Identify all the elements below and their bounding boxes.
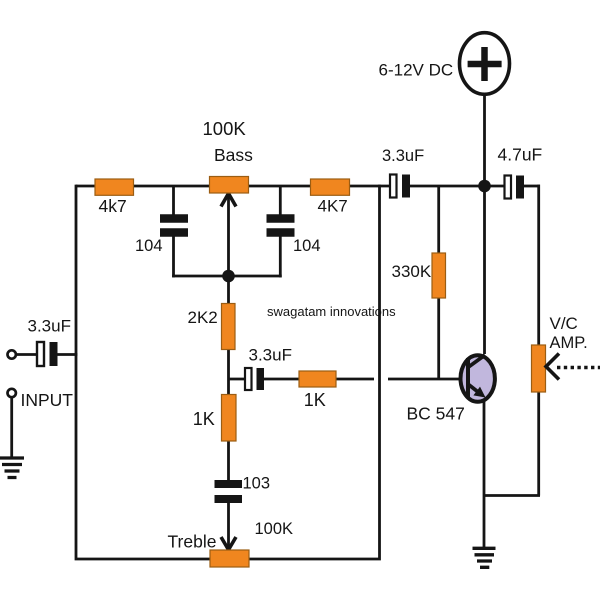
capacitor C7 4.7uF positive plate: [516, 176, 524, 199]
wire 1K to crossing break: [335, 378, 374, 381]
wire top rail right section: [524, 185, 540, 188]
wire base branch column to 3.3uF: [229, 378, 247, 381]
potentiometer treble 100K body: [210, 550, 249, 567]
transistor Q1 emitter stroke: [469, 385, 481, 394]
svg-text:BC 547: BC 547: [407, 404, 465, 424]
resistor R4 2K2: [222, 304, 236, 350]
svg-text:V/C: V/C: [550, 314, 578, 333]
bass wiper arrowhead: [221, 194, 236, 207]
input terminal bottom circle: [8, 389, 16, 397]
wire VC branch vertical: [537, 185, 540, 496]
svg-text:100K: 100K: [203, 118, 247, 139]
wire supply rail vertical: [483, 95, 486, 354]
ground emitter: [473, 548, 496, 567]
transistor Q1 emitter arrowhead: [473, 387, 485, 398]
svg-text:100K: 100K: [255, 520, 294, 538]
potentiometer VC amp body: [532, 345, 546, 392]
VC wiper dotted lead: [557, 366, 600, 369]
svg-text:4K7: 4K7: [318, 197, 348, 216]
wire input coupling left: [16, 353, 37, 356]
wire left 104 cap top lead: [172, 186, 175, 215]
wire 1K to 103 cap: [227, 439, 230, 481]
svg-text:AMP.: AMP.: [550, 334, 588, 352]
capacitor C2 left 104: [160, 219, 188, 233]
battery plus sign: [468, 47, 502, 81]
svg-text:6-12V DC: 6-12V DC: [379, 61, 454, 80]
capacitor C6 top 3.3uF negative plate: [390, 175, 397, 198]
resistor R5 1K vertical: [222, 395, 237, 442]
VC wiper arrowhead: [546, 354, 559, 380]
wire left/bottom/right U loop: [76, 185, 380, 559]
capacitor C7 4.7uF negative plate: [505, 176, 512, 199]
svg-text:104: 104: [135, 237, 163, 255]
wire center column dot to 2K2: [227, 276, 230, 305]
capacitor C1 input 3.3uF positive plate: [50, 342, 58, 366]
transistor Q1 BC547 body: [461, 355, 495, 402]
svg-text:3.3uF: 3.3uF: [382, 147, 424, 165]
resistor R1 4k7: [95, 179, 134, 195]
wire top rail mid section: [409, 185, 505, 188]
svg-text:103: 103: [243, 475, 271, 493]
svg-text:4.7uF: 4.7uF: [498, 145, 543, 165]
svg-text:Bass: Bass: [214, 145, 253, 165]
wire input ground drop: [10, 398, 13, 458]
wire 2K2 to 1K: [227, 348, 230, 396]
capacitor C4 mid 3.3uF negative plate: [245, 368, 252, 390]
battery B1 6-12V DC circle: [460, 33, 510, 95]
node supply junction dot: [478, 180, 491, 193]
capacitor C3 right 104: [267, 219, 295, 233]
wire bass feedback cross bar: [172, 275, 282, 278]
treble wiper arrowhead: [221, 537, 236, 550]
svg-text:3.3uF: 3.3uF: [28, 317, 71, 336]
svg-text:4k7: 4k7: [99, 196, 127, 216]
svg-text:330K: 330K: [392, 262, 432, 281]
ground input: [0, 458, 24, 478]
svg-text:2K2: 2K2: [188, 308, 218, 327]
wire treble wiper shaft: [227, 502, 230, 547]
svg-text:3.3uF: 3.3uF: [249, 346, 292, 365]
wire emitter to VC pot bottom: [484, 494, 540, 497]
resistor R3 330K: [432, 253, 446, 298]
wire input coupling right: [56, 353, 77, 356]
resistor R6 1K horizontal: [299, 371, 336, 387]
transistor Q1 base bar: [466, 358, 470, 397]
wire 3.3uF to 1K horizontal: [264, 378, 300, 381]
capacitor C1 input 3.3uF negative plate: [37, 342, 44, 366]
resistor R2 4K7: [311, 179, 350, 195]
capacitor C6 top 3.3uF positive plate: [402, 175, 410, 198]
wire left 104 cap bottom lead: [172, 236, 175, 277]
svg-text:1K: 1K: [304, 390, 326, 410]
wire top rail left section: [76, 185, 390, 188]
svg-text:swagatam innovations: swagatam innovations: [267, 304, 396, 319]
capacitor C4 mid 3.3uF positive plate: [257, 368, 265, 390]
potentiometer bass 100K body: [210, 177, 249, 194]
wire bass wiper shaft: [227, 196, 230, 276]
node A junction dot below bass: [222, 270, 235, 283]
wire emitter down: [483, 400, 486, 548]
wire 330K top lead: [437, 186, 440, 255]
capacitor C5 103: [215, 484, 243, 499]
svg-text:104: 104: [293, 237, 321, 255]
svg-text:INPUT: INPUT: [21, 390, 74, 410]
wire right 104 cap bottom lead: [279, 236, 282, 277]
svg-text:1K: 1K: [193, 409, 215, 429]
wire crossing break to transistor base: [388, 378, 468, 381]
wire right 104 cap top lead: [279, 186, 282, 215]
svg-text:Treble: Treble: [168, 532, 217, 552]
wire 330K bottom lead: [437, 296, 440, 379]
transistor Q1 collector stroke: [469, 355, 486, 367]
input terminal top circle: [8, 350, 16, 358]
